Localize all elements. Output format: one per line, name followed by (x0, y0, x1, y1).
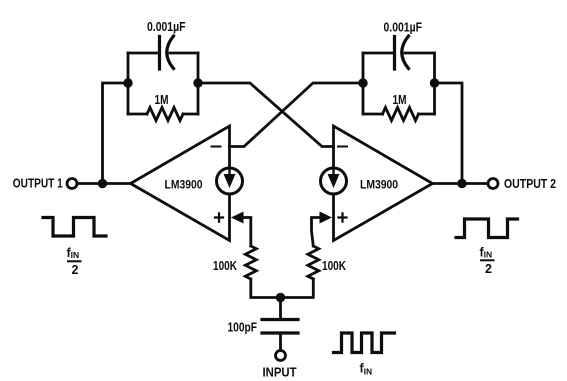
junction node left feedback right (193, 78, 202, 87)
wire right feedback node to cross (to U1 minus) (230, 83, 364, 147)
current source U1 arrow head (224, 174, 236, 188)
fraction bar left (68, 260, 81, 262)
left feedback loop right side (197, 53, 200, 114)
waveform fin/2 right (456, 219, 518, 238)
svg-text:2: 2 (485, 262, 492, 276)
capacitor C2 0.001uF straight plate (393, 37, 396, 70)
resistor R3 100K zigzag (245, 246, 256, 279)
wire bottom branch left of R2 (363, 113, 383, 116)
resistor R2 1M zigzag (383, 108, 419, 121)
capacitor C1 0.001uF straight plate (158, 37, 161, 70)
svg-text:LM3900: LM3900 (360, 178, 398, 192)
wire top branch right of C2 (405, 52, 435, 55)
current source U2 arrow stem (332, 169, 334, 181)
wire input node to C3 (279, 298, 282, 319)
svg-text:INPUT: INPUT (263, 366, 297, 380)
op-amp U2 LM3900 (right) (334, 126, 433, 241)
terminal OUTPUT 2 (488, 179, 498, 189)
capacitor C1 curved plate (167, 36, 174, 69)
wire U2 plus to R4 (312, 218, 322, 247)
plus sign U2 (339, 213, 347, 221)
svg-text:fIN: fIN (480, 246, 493, 260)
junction node at OUTPUT1 (98, 179, 107, 188)
svg-text:1M: 1M (155, 93, 169, 107)
fraction bar right (481, 259, 494, 261)
wire bottom branch left of R1 (128, 113, 147, 116)
svg-text:OUTPUT 1: OUTPUT 1 (13, 177, 63, 191)
wire node to U1 output apex (103, 182, 131, 185)
wire bottom branch right of R2 (419, 113, 435, 116)
current source U2 (circle blank) (321, 168, 347, 194)
op-amp U1 LM3900 (left) (131, 126, 230, 241)
wire top branch left of C1 (128, 52, 160, 55)
junction node at OUTPUT2 (457, 179, 466, 188)
capacitor C2 curved plate (402, 36, 409, 69)
svg-text:100K: 100K (213, 259, 237, 273)
minus sign U2 (338, 146, 347, 148)
left feedback loop left side (127, 53, 130, 114)
terminal INPUT (276, 351, 286, 361)
waveform fin input (334, 333, 395, 353)
junction node right feedback right (430, 78, 439, 87)
wire OUTPUT1 terminal to node (77, 182, 103, 185)
junction node left feedback left (123, 78, 132, 87)
wire R3 bottom to input node (251, 279, 281, 298)
svg-text:2: 2 (72, 263, 79, 277)
svg-text:100K: 100K (322, 259, 346, 273)
wire U2 output apex to OUTPUT2 terminal (433, 182, 489, 185)
svg-text:OUTPUT 2: OUTPUT 2 (504, 177, 556, 191)
current source U1 arrow stem (228, 169, 230, 181)
waveform fin/2 left (43, 218, 106, 237)
wire C3 to INPUT terminal (279, 333, 282, 351)
wire bottom branch right of R1 (183, 113, 198, 116)
wire top branch right of C1 (170, 52, 198, 55)
svg-text:100pF: 100pF (228, 321, 258, 335)
wire U1 plus to R3 (242, 218, 251, 247)
junction node input (276, 293, 285, 302)
right feedback loop left side (362, 53, 365, 114)
svg-text:1M: 1M (393, 93, 407, 107)
svg-text:LM3900: LM3900 (165, 178, 203, 192)
wire right feedback node to OUTPUT2 node (435, 83, 463, 184)
svg-text:0.001µF: 0.001µF (147, 20, 186, 34)
svg-text:fIN: fIN (67, 246, 80, 260)
current source U1 (circle blank) (217, 168, 243, 194)
wire top branch left of C2 (363, 52, 395, 55)
arrowhead into U2 plus input (320, 212, 333, 224)
svg-text:0.001µF: 0.001µF (384, 20, 423, 34)
arrowhead into U1 plus input (231, 212, 244, 224)
resistor R1 1M zigzag (147, 108, 183, 121)
junction node right feedback left (358, 78, 367, 87)
resistor R4 100K zigzag (308, 246, 319, 279)
right feedback loop right side (433, 53, 436, 114)
svg-text:fIN: fIN (360, 362, 373, 377)
wire R4 bottom to input node (281, 279, 314, 298)
wire left feedback node to cross (to U2 minus) (198, 83, 334, 147)
plus sign U1 (215, 213, 223, 221)
terminal OUTPUT 1 (67, 179, 77, 189)
current source U2 arrow head (328, 174, 340, 188)
minus sign U1 (212, 146, 221, 148)
wire node up left feedback (103, 83, 129, 184)
capacitor C3 100pF bottom plate (262, 331, 298, 334)
capacitor C3 100pF top plate (262, 318, 298, 321)
